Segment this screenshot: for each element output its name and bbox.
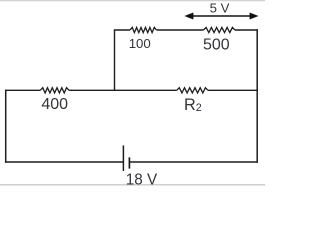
- wire: middle right of R2 to right rail: [208, 89, 258, 91]
- wire: bottom left (to battery): [5, 161, 123, 163]
- svg-text:5 V: 5 V: [210, 0, 230, 15]
- bottom page rule: [0, 184, 265, 186]
- resistor R2: [177, 88, 208, 93]
- resistor 500: [204, 27, 236, 32]
- wire: right vertical: [256, 29, 258, 162]
- wire: top branch right of 500: [235, 29, 258, 31]
- wire: top branch left vertical: [114, 30, 116, 90]
- resistor 100: [130, 27, 157, 32]
- svg-text:100: 100: [129, 36, 151, 51]
- resistor 400: [40, 88, 69, 93]
- wire: middle left (from left rail to resistor 400): [5, 89, 40, 91]
- wire: top branch between resistors: [157, 29, 204, 31]
- svg-text:R2: R2: [184, 96, 202, 114]
- 5 V measurement arrow (double headed): [184, 13, 258, 20]
- wire: middle between 400 and R2: [69, 89, 177, 91]
- top page rule: [0, 0, 265, 2]
- wire: left vertical: [5, 90, 7, 163]
- svg-text:500: 500: [203, 37, 230, 54]
- wire: top branch horizontal (left of R 100): [114, 29, 130, 31]
- wire: bottom right (battery to right rail): [129, 161, 258, 163]
- svg-text:18 V: 18 V: [126, 171, 158, 188]
- battery B1 short plate: [128, 157, 130, 168]
- svg-text:400: 400: [41, 96, 68, 113]
- battery B1 long plate: [122, 145, 124, 171]
